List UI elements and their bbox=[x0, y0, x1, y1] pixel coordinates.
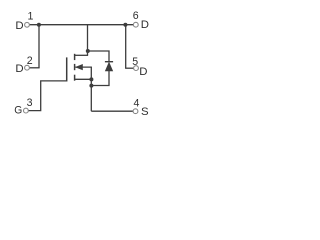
wire diode bottom return bbox=[91, 71, 109, 86]
wire drain vertical to MOSFET bbox=[87, 25, 89, 56]
diode D1 body diode bbox=[105, 62, 113, 71]
svg-text:D: D bbox=[15, 63, 23, 75]
node drain junction (diode branch) bbox=[86, 49, 90, 53]
node junction A (pin1 branch) bbox=[37, 23, 41, 27]
terminal pin 2 bbox=[25, 65, 30, 70]
svg-text:2: 2 bbox=[27, 55, 33, 67]
wire drain lead bbox=[75, 54, 89, 56]
terminal pin 3 bbox=[24, 108, 29, 113]
terminal pin 5 bbox=[134, 66, 139, 71]
svg-text:4: 4 bbox=[134, 98, 140, 110]
svg-text:D: D bbox=[139, 66, 147, 78]
wire top drain rail pin1 to pin6 bbox=[29, 24, 133, 26]
wire diode top branch bbox=[88, 51, 109, 61]
wire gate path from pin3 bbox=[28, 81, 66, 111]
svg-text:G: G bbox=[14, 105, 22, 117]
node source lead junction bbox=[89, 77, 93, 81]
wire source horizontal to pin4 bbox=[91, 110, 133, 112]
node junction B (pin6 branch) bbox=[123, 23, 127, 27]
svg-text:6: 6 bbox=[133, 10, 139, 22]
terminal pin 6 bbox=[133, 22, 138, 27]
terminal pin 4 bbox=[133, 109, 138, 114]
svg-text:3: 3 bbox=[27, 97, 33, 109]
wire vertical from junction B down to pin5 level bbox=[125, 25, 127, 68]
wire pin2 horizontal bbox=[29, 67, 39, 69]
wire source/body vertical bbox=[90, 67, 92, 111]
svg-text:D: D bbox=[15, 20, 23, 32]
node diode return junction bbox=[89, 84, 93, 88]
terminal pin 1 bbox=[25, 22, 30, 27]
svg-text:D: D bbox=[141, 19, 149, 31]
transistor Q1 N-channel MOSFET bbox=[67, 54, 92, 82]
wire pin5 horizontal bbox=[125, 67, 134, 69]
svg-text:S: S bbox=[141, 106, 149, 118]
svg-text:5: 5 bbox=[132, 56, 138, 68]
wire vertical from junction A down to pin2 level bbox=[38, 25, 40, 68]
svg-text:1: 1 bbox=[27, 10, 33, 22]
